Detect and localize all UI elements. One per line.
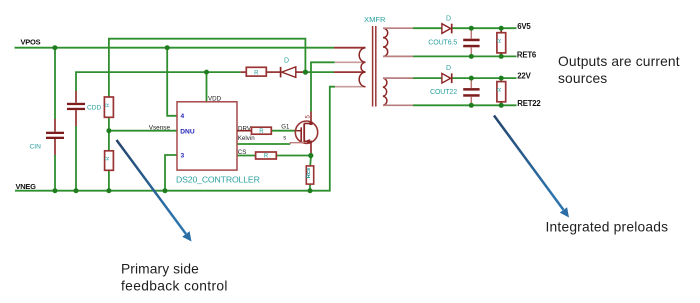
svg-text:s: s <box>283 135 286 141</box>
junction VNEG/pin3 <box>163 188 168 193</box>
svg-text:R: R <box>497 39 503 43</box>
svg-text:VNEG: VNEG <box>16 182 37 191</box>
wire divider chain <box>108 117 110 190</box>
svg-text:Kelvin: Kelvin <box>238 135 255 142</box>
core <box>372 26 374 107</box>
svg-text:sources: sources <box>558 71 607 86</box>
diode D output 22V <box>442 65 452 83</box>
svg-text:R: R <box>259 129 264 135</box>
primary rung 3 <box>334 71 366 73</box>
junction VPOS/pin4 <box>165 45 170 50</box>
annotation arrow right <box>494 116 569 218</box>
svg-text:3: 3 <box>181 153 185 160</box>
junction RET6/R <box>499 54 504 59</box>
svg-text:R: R <box>264 154 269 160</box>
svg-text:R: R <box>105 103 111 107</box>
svg-text:Vsense: Vsense <box>149 125 171 132</box>
wire Rcs to VNEG <box>309 184 311 191</box>
wire CIN bottom <box>54 155 56 191</box>
wire VDD pin drop <box>206 72 208 102</box>
resistor R preload 22V <box>497 78 506 105</box>
secondary 1 rung top <box>383 27 413 29</box>
secondary 1 winding arcs <box>383 28 388 56</box>
junction VPOS/CIN <box>52 45 57 50</box>
svg-text:DS20_CONTROLLER: DS20_CONTROLLER <box>176 175 260 185</box>
wire CS right to source node <box>276 155 311 157</box>
wire VPOS rail <box>15 47 335 49</box>
wire pin3 to VNEG <box>165 155 177 191</box>
junction Vsense <box>106 128 111 133</box>
svg-text:6V5: 6V5 <box>517 22 531 31</box>
primary rung 2 <box>335 61 366 63</box>
svg-text:VDD: VDD <box>208 96 222 103</box>
resistor R current sense filter (CS) <box>256 152 277 160</box>
junction 6V5/COUT <box>469 26 474 31</box>
junction 6V5/R <box>499 26 504 31</box>
resistor R preload 6V5 <box>497 28 506 56</box>
wire RET6 <box>413 55 517 57</box>
resistor R divider upper <box>104 97 113 117</box>
diode D output 6V5 <box>442 16 452 34</box>
svg-text:4: 4 <box>181 113 185 120</box>
svg-text:Primary side: Primary side <box>121 261 199 276</box>
wire CS left <box>237 155 256 157</box>
svg-text:RET22: RET22 <box>517 99 541 108</box>
secondary 2 rung top <box>383 77 413 79</box>
svg-text:R: R <box>254 70 259 76</box>
wire VDD rail <box>76 72 241 91</box>
resistor Rcs <box>306 166 314 184</box>
svg-text:RET6: RET6 <box>517 50 537 59</box>
wire 6V5 pre-diode <box>413 27 442 29</box>
svg-text:D: D <box>284 58 289 65</box>
wire top rail (bias node) <box>109 39 306 97</box>
primary rung 1 <box>334 47 366 49</box>
junction VNEG/CDD <box>74 188 79 193</box>
wire VNEG rail <box>15 87 335 191</box>
primary rung 4 <box>335 86 366 88</box>
wire source to Rcs <box>309 156 312 166</box>
svg-text:Integrated preloads: Integrated preloads <box>546 220 669 235</box>
wire MOSFET drain to transformer rung2 <box>311 62 335 111</box>
resistor R VDD clamp <box>241 67 280 76</box>
svg-text:R: R <box>105 157 111 161</box>
junction RET22/R <box>499 103 504 108</box>
svg-text:CS: CS <box>238 149 247 156</box>
junction clamp node <box>303 70 308 75</box>
resistor R gate (DRV) <box>237 127 271 135</box>
wire pin4 to VPOS <box>167 48 177 116</box>
resistor R divider lower <box>105 151 114 171</box>
annotation arrow left <box>117 140 192 242</box>
svg-text:CIN: CIN <box>30 144 42 151</box>
primary winding arcs <box>359 48 365 87</box>
junction VNEG/CIN <box>53 188 58 193</box>
svg-text:feedback control: feedback control <box>121 279 228 294</box>
capacitor CDD <box>67 91 102 126</box>
junction VNEG/divider <box>106 188 111 193</box>
wire Kelvin <box>237 143 290 145</box>
svg-text:G1: G1 <box>281 124 290 130</box>
junction source/CS <box>308 153 313 158</box>
diode D VDD clamp <box>281 58 306 78</box>
svg-text:Outputs are current: Outputs are current <box>558 54 680 69</box>
svg-text:D: D <box>446 16 451 23</box>
svg-text:22V: 22V <box>517 71 531 80</box>
svg-text:XMFR: XMFR <box>364 15 386 24</box>
transistor Q5 MOSFET <box>290 112 317 156</box>
wire 22V <box>453 77 517 79</box>
wire clamp node to transformer rung3 <box>305 71 334 73</box>
secondary 2 rung bottom <box>383 104 413 106</box>
wire CIN top <box>54 48 56 119</box>
wire 6V5 <box>453 27 517 29</box>
svg-text:COUT22: COUT22 <box>430 89 457 96</box>
svg-text:COUT6.5: COUT6.5 <box>428 40 457 47</box>
wire Vsense <box>109 130 177 132</box>
IC U1 DS20_CONTROLLER <box>176 96 260 185</box>
capacitor COUT6.5 <box>428 28 479 56</box>
wire CDD bottom <box>75 126 77 191</box>
junction VNEG/Rcs <box>308 188 313 193</box>
svg-text:CDD: CDD <box>87 105 102 112</box>
svg-text:DNU: DNU <box>180 128 195 135</box>
wire RET22 <box>413 104 517 106</box>
wire DRV to gate <box>271 130 296 132</box>
junction 22V/R <box>499 76 504 81</box>
svg-text:R: R <box>497 88 503 92</box>
capacitor CIN <box>30 119 65 155</box>
capacitor COUT22 <box>430 78 480 105</box>
junction RET22/COUT <box>469 103 474 108</box>
secondary 2 winding arcs <box>383 78 387 105</box>
svg-text:Rcs: Rcs <box>306 168 312 179</box>
wire 22V pre-diode <box>413 77 442 79</box>
secondary 1 rung bottom <box>383 55 413 57</box>
junction VDD tap <box>204 70 209 75</box>
svg-text:D: D <box>446 65 451 72</box>
junction 22V/COUT <box>469 76 474 81</box>
svg-text:VPOS: VPOS <box>21 38 41 47</box>
junction RET6/COUT <box>469 54 474 59</box>
transformer XMFR <box>334 15 413 107</box>
